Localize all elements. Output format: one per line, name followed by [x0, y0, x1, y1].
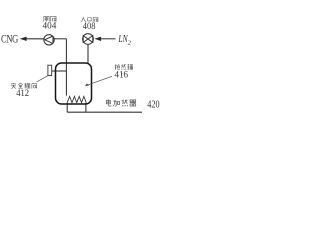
tank 416 (insulated tank, rounded rect) — [56, 63, 92, 104]
wire: safety valve branch to dip tube — [52, 70, 67, 72]
leader line to safety valve 412 — [37, 76, 48, 82]
wire: pipe from valve 404 to downcomer corner — [54, 38, 66, 40]
label 闸阀 404 — [44, 16, 49, 21]
valve 404 (check valve in circle) — [44, 35, 54, 45]
wire: heater lead to label 420 — [67, 111, 142, 113]
wire: heater left lead — [66, 103, 68, 113]
wire: pipe from LN2 arrow to valve 408 — [101, 38, 116, 40]
arrow from LN2 into valve 408 — [94, 37, 101, 41]
svg-text:416: 416 — [115, 69, 129, 80]
label 电加热器 420 — [106, 99, 111, 106]
wire: downcomer / dip tube into tank — [65, 39, 67, 96]
safety valve 412 symbol — [48, 65, 52, 75]
label 入口阀 408 — [81, 17, 86, 22]
wire: pipe from valve 408 down to tank top — [87, 44, 89, 64]
svg-text:412: 412 — [16, 88, 29, 99]
arrow to CNG (flow direction) — [20, 37, 27, 41]
wire: pipe from CNG arrow to valve 404 — [26, 38, 44, 40]
svg-text:CNG: CNG — [1, 34, 18, 46]
svg-text:408: 408 — [83, 21, 96, 32]
svg-text:404: 404 — [43, 21, 57, 32]
valve 408 (inlet valve, bowtie in circle) — [83, 34, 94, 45]
wire: heater right lead — [85, 103, 87, 113]
svg-text:420: 420 — [147, 98, 160, 110]
heater element 420 (zigzag) — [67, 96, 86, 102]
label 绝热罐 416 — [115, 64, 120, 69]
svg-text:LN: LN — [118, 33, 128, 45]
leader arrow to tank 416 — [85, 76, 112, 86]
label 安全隔阀 412 — [11, 83, 16, 89]
